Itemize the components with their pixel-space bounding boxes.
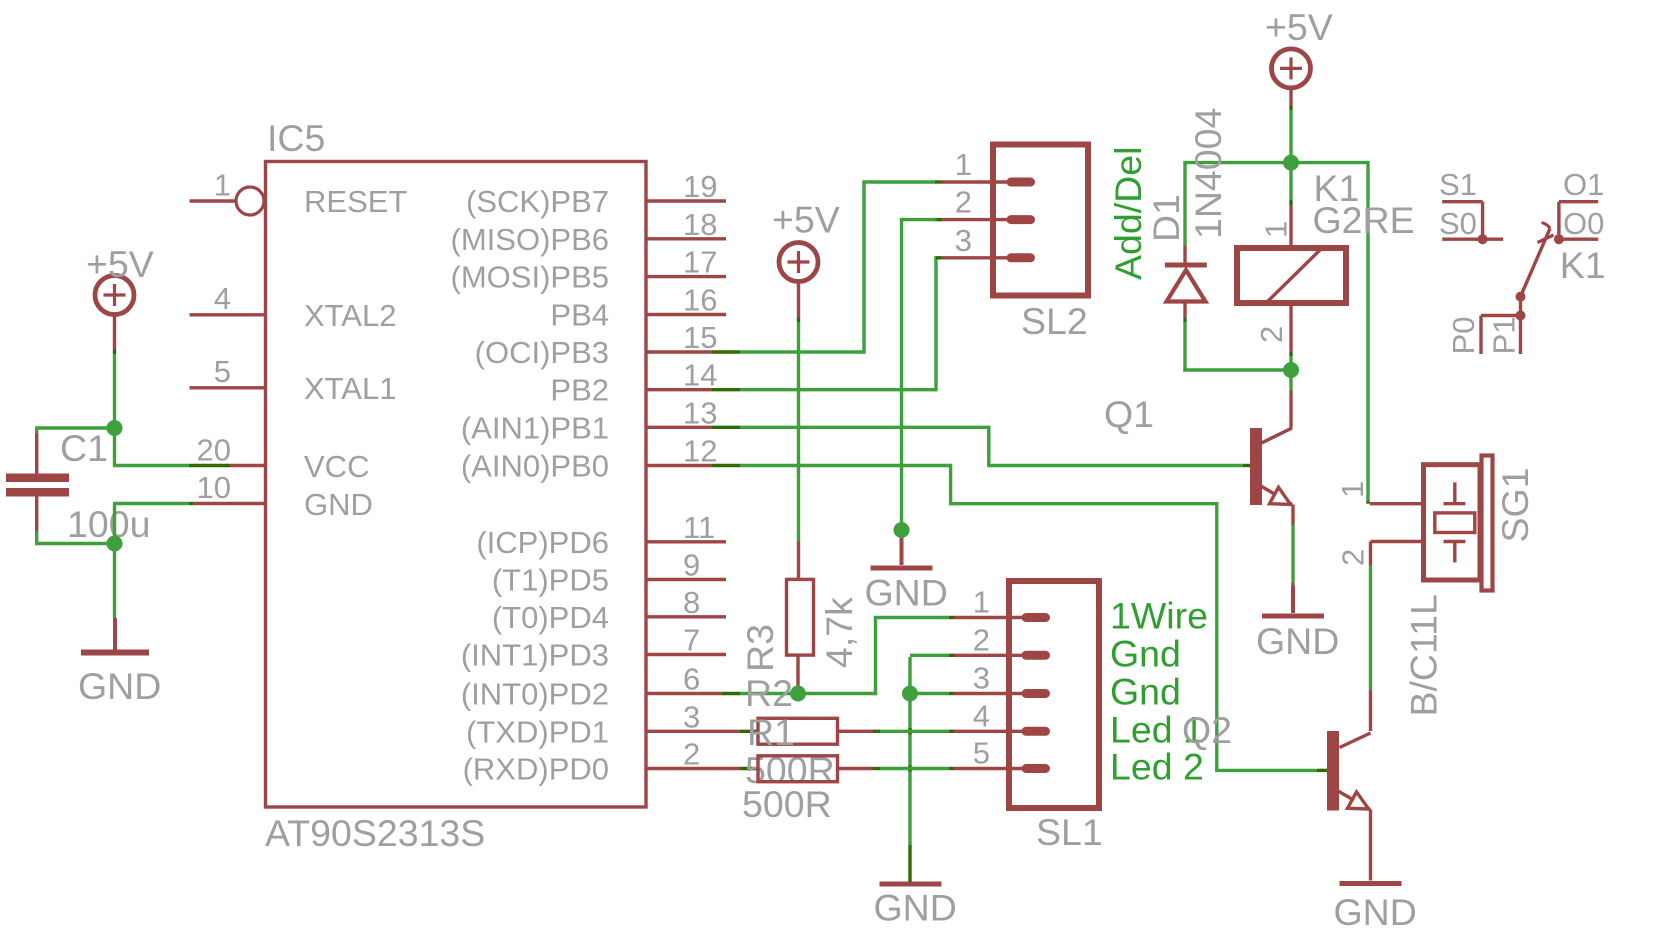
svg-text:2: 2 <box>1336 549 1371 566</box>
Q2 emitter arrow <box>1348 792 1369 809</box>
R3 value label 4,7k <box>818 597 860 668</box>
svg-text:14: 14 <box>683 358 717 393</box>
node E junction dot (+5V rail) <box>1283 155 1299 171</box>
wire junction A to C1 top <box>35 428 115 433</box>
contact P junction dot <box>1516 311 1526 321</box>
IC5 value label AT90S2313S <box>265 812 485 854</box>
D1 value label 1N4004 <box>1187 108 1229 239</box>
svg-text:Q2: Q2 <box>1182 709 1232 751</box>
IC5 name label <box>267 117 325 159</box>
C1 value label 100u <box>67 503 150 545</box>
svg-text:IC5: IC5 <box>267 117 325 159</box>
pin number 2 <box>683 737 700 772</box>
pin 11 (ICP)PD6 stub <box>645 540 726 543</box>
R1 value label 500R <box>745 749 835 791</box>
SG1 inner electrode top <box>1444 482 1466 503</box>
svg-text:SG1: SG1 <box>1494 467 1536 542</box>
svg-text:GND: GND <box>874 887 957 929</box>
SL1 pin number 5 <box>973 736 990 771</box>
wire junction C to SL1 pin1 1Wire <box>798 618 1023 696</box>
svg-text:18: 18 <box>683 207 717 242</box>
pin number 1 <box>214 168 231 203</box>
svg-text:GND: GND <box>1334 891 1417 933</box>
svg-text:R3: R3 <box>739 624 781 672</box>
svg-text:5: 5 <box>973 736 990 771</box>
svg-text:R1: R1 <box>747 711 795 753</box>
transistor Q1 base bar <box>1250 428 1262 505</box>
pin 2 (RXD)PD0 stub <box>645 767 758 770</box>
relay K1 coil body <box>1237 248 1346 303</box>
svg-text:13: 13 <box>683 395 717 430</box>
pin 20 VCC stub <box>189 464 266 467</box>
net label Gnd <box>1110 671 1181 713</box>
pin number 6 <box>683 662 700 697</box>
svg-text:G2RE: G2RE <box>1313 199 1415 241</box>
svg-text:(OCI)PB3: (OCI)PB3 <box>475 335 609 370</box>
svg-text:11: 11 <box>683 510 715 545</box>
net label Led 2 <box>1110 746 1204 788</box>
svg-text:1Wire: 1Wire <box>1110 595 1208 637</box>
wire relay K1 pin 1 <box>1289 163 1292 245</box>
K1 value label G2RE <box>1313 199 1415 241</box>
pin 15 (OCI)PB3 stub <box>645 350 740 353</box>
wire Q2 emitter to ground <box>1369 810 1372 881</box>
capacitor C1 plates <box>6 474 69 497</box>
pin name (MOSI)PB5 <box>451 260 609 295</box>
pin name (AIN0)PB0 <box>461 449 609 484</box>
svg-text:P1: P1 <box>1487 316 1522 354</box>
label O1 <box>1563 167 1604 202</box>
svg-text:VCC: VCC <box>304 449 369 484</box>
wire SL2 pin2 to ground <box>902 218 942 530</box>
pin 10 GND stub <box>189 502 266 505</box>
wire C1 bottom to junction B <box>35 531 115 545</box>
pin name (TXD)PD1 <box>466 714 609 749</box>
pin number 5 <box>214 354 231 389</box>
pin number 15 <box>683 320 717 355</box>
contact S0 wire <box>1442 237 1503 240</box>
R2 value label 500R <box>742 783 832 825</box>
wire +5V P1 to junction A <box>113 315 116 428</box>
pin 1 inversion bubble <box>236 187 264 215</box>
pin number 7 <box>683 623 700 658</box>
Q1 name label <box>1104 393 1154 435</box>
pin name (MISO)PB6 <box>451 222 609 257</box>
pin number 19 <box>683 169 717 204</box>
svg-text:(T0)PD4: (T0)PD4 <box>492 600 609 635</box>
pin name (AIN1)PB1 <box>461 410 609 445</box>
diode D1 triangle <box>1167 270 1206 302</box>
resistor R1 body <box>758 718 838 744</box>
wire +5V P3 down <box>1289 88 1292 163</box>
K1 name label <box>1314 167 1360 209</box>
pin number 13 <box>683 395 717 430</box>
svg-text:1: 1 <box>955 147 972 182</box>
pin name GND <box>304 487 373 522</box>
svg-text:B/C11L: B/C11L <box>1403 594 1445 716</box>
pin 4 XTAL2 wire <box>190 313 266 316</box>
wire R2 right to SL1 pin5 Led 2 <box>838 767 1024 770</box>
node B junction dot <box>107 536 123 552</box>
svg-text:5: 5 <box>214 354 231 389</box>
SL1 pin number 3 <box>973 661 990 696</box>
capacitor C1 top lead <box>35 432 38 474</box>
wire junction E left to D1 <box>1185 161 1293 164</box>
pin 1 RESET wire <box>190 199 237 202</box>
svg-text:2: 2 <box>955 185 972 220</box>
wire pin15 PB3 to SL2 pin1 <box>740 182 942 354</box>
resistor R3 body <box>787 579 814 655</box>
pin name XTAL2 <box>304 298 396 333</box>
svg-text:O0: O0 <box>1563 206 1604 241</box>
svg-text:(INT0)PD2: (INT0)PD2 <box>461 677 609 712</box>
svg-text:2: 2 <box>683 737 700 772</box>
svg-text:19: 19 <box>683 169 717 204</box>
pin name PB4 <box>550 298 609 333</box>
svg-text:+5V: +5V <box>1265 6 1333 48</box>
svg-text:Gnd: Gnd <box>1110 671 1181 713</box>
pin name VCC <box>304 449 369 484</box>
node C junction dot (R3/pin6/1Wire) <box>790 686 806 702</box>
+5V supply symbol P3 (relay) <box>1265 6 1333 88</box>
wire junction F to Q1 collector <box>1289 370 1292 428</box>
svg-text:8: 8 <box>683 585 700 620</box>
pin 7 (INT1)PD3 stub <box>645 653 726 656</box>
svg-text:17: 17 <box>683 245 717 280</box>
svg-text:500R: 500R <box>742 783 832 825</box>
IC IC5 AT90S2313S body <box>266 162 647 808</box>
svg-text:2: 2 <box>973 622 990 657</box>
contact arm pivot dot <box>1516 292 1526 302</box>
relay pin number 1 <box>1259 221 1294 238</box>
SG1 inner electrode bottom <box>1444 542 1466 563</box>
relay K1 coil diagonal <box>1266 248 1322 303</box>
R3 name label <box>739 624 781 672</box>
svg-text:SL1: SL1 <box>1036 811 1103 853</box>
wire D1 to junction F <box>1183 368 1291 371</box>
wire SL1 pin3 Gnd <box>908 692 1023 695</box>
SL2 pin number 3 <box>955 223 972 258</box>
pin name (OCI)PB3 <box>475 335 609 370</box>
contact K1 moving arm <box>1521 223 1554 297</box>
diode D1 cathode bar <box>1165 263 1207 268</box>
wire R3 bottom to junction C <box>796 655 799 693</box>
pin number 20 <box>197 433 231 468</box>
pin name (SCK)PB7 <box>466 184 609 219</box>
Q2 emitter lead <box>1338 791 1370 810</box>
pin name (RXD)PD0 <box>463 752 609 787</box>
pin name (INT1)PD3 <box>461 638 609 673</box>
wire relay K1 pin 2 <box>1289 306 1292 371</box>
svg-text:RESET: RESET <box>304 184 407 219</box>
svg-text:GND: GND <box>1256 620 1339 662</box>
SL2 pin number 2 <box>955 185 972 220</box>
ground symbol (SL2 pin2) <box>865 533 948 614</box>
contact O1 wire <box>1559 202 1598 240</box>
wire pin13 PB1 to Q1 base <box>740 426 1250 466</box>
label O0 <box>1563 206 1604 241</box>
pin 12 (AIN0)PB0 stub <box>645 464 740 467</box>
wire junction D to ground <box>908 694 911 883</box>
node A junction dot <box>107 420 123 436</box>
Q1 collector lead <box>1262 428 1293 443</box>
pin number 12 <box>683 434 717 469</box>
SG1 pin 1 wire <box>1370 502 1424 505</box>
svg-text:9: 9 <box>683 548 700 583</box>
wire R1 right to SL1 pin4 Led 1 <box>838 730 1024 733</box>
ground symbol (Q2 emitter) <box>1334 884 1417 934</box>
pin 13 (AIN1)PB1 stub <box>645 426 740 429</box>
contact S1 wire <box>1442 202 1482 240</box>
SL2 pin number 1 <box>955 147 972 182</box>
SL1 pin number 2 <box>973 622 990 657</box>
svg-text:SL2: SL2 <box>1021 300 1088 342</box>
wire junction E right then down to SG1 pin1 <box>1289 161 1368 504</box>
R1 left lead <box>756 730 759 733</box>
SL2 name label <box>1021 300 1088 342</box>
wire junction A to VCC pin 20 <box>113 428 189 466</box>
pin name (T0)PD4 <box>492 600 609 635</box>
pin number 17 <box>683 245 717 280</box>
svg-text:4: 4 <box>214 281 231 316</box>
svg-text:+5V: +5V <box>86 243 154 285</box>
svg-text:(ICP)PD6: (ICP)PD6 <box>476 525 609 560</box>
pin 18 (MISO)PB6 stub <box>645 237 726 240</box>
Q2 name label <box>1182 709 1232 751</box>
svg-text:S0: S0 <box>1439 206 1477 241</box>
pin 19 (SCK)PB7 stub <box>645 199 726 202</box>
pin number 14 <box>683 358 717 393</box>
pin name (T1)PD5 <box>492 563 609 598</box>
+5V supply symbol P1 (left) <box>86 243 154 315</box>
connector SL1 body and pins <box>1009 581 1099 808</box>
SG1 inner crystal <box>1435 513 1475 533</box>
svg-text:XTAL2: XTAL2 <box>304 298 396 333</box>
label P1 <box>1487 316 1522 354</box>
capacitor C1 bottom lead <box>35 497 38 532</box>
svg-text:S1: S1 <box>1439 167 1477 202</box>
svg-text:C1: C1 <box>60 427 108 469</box>
SG1 pin 2 wire <box>1371 540 1424 543</box>
contact arm link <box>1519 297 1522 316</box>
pin number 9 <box>683 548 700 583</box>
svg-text:(MOSI)PB5: (MOSI)PB5 <box>451 260 609 295</box>
pin 14 PB2 stub <box>645 388 740 391</box>
svg-text:4: 4 <box>973 698 990 733</box>
pin number 16 <box>683 283 717 318</box>
D1 name label <box>1145 194 1187 242</box>
svg-text:(MISO)PB6: (MISO)PB6 <box>451 222 609 257</box>
label S0 <box>1439 206 1477 241</box>
svg-text:(TXD)PD1: (TXD)PD1 <box>466 714 609 749</box>
svg-text:PB2: PB2 <box>550 373 609 408</box>
svg-text:12: 12 <box>683 434 717 469</box>
svg-text:2: 2 <box>1254 326 1289 343</box>
SG1 pin number 2 <box>1336 549 1371 566</box>
pin number 10 <box>197 470 231 505</box>
contact O junction dot <box>1554 234 1564 244</box>
svg-text:PB4: PB4 <box>550 298 609 333</box>
svg-text:7: 7 <box>683 623 700 658</box>
svg-text:10: 10 <box>197 470 231 505</box>
wire pin12 PB0 to Q2 base <box>740 464 1327 771</box>
svg-text:1: 1 <box>1259 221 1294 238</box>
SG1 name label <box>1494 467 1536 542</box>
svg-text:(T1)PD5: (T1)PD5 <box>492 563 609 598</box>
contact P0 wire <box>1481 316 1521 355</box>
svg-text:6: 6 <box>683 662 700 697</box>
svg-text:(SCK)PB7: (SCK)PB7 <box>466 184 609 219</box>
+5V supply symbol P2 (above R3) <box>772 199 840 282</box>
R2 name label <box>745 672 793 714</box>
svg-text:XTAL1: XTAL1 <box>304 371 396 406</box>
SG1 pin number 1 <box>1335 481 1370 498</box>
svg-text:(RXD)PD0: (RXD)PD0 <box>463 752 609 787</box>
pin 17 (MOSI)PB5 stub <box>645 275 726 278</box>
svg-text:Q1: Q1 <box>1104 393 1154 435</box>
pin number 8 <box>683 585 700 620</box>
contact O0 wire <box>1556 237 1598 240</box>
contact group name K1 <box>1560 244 1606 286</box>
pin 9 (T1)PD5 stub <box>645 578 726 581</box>
pin name XTAL1 <box>304 371 396 406</box>
svg-text:1: 1 <box>1335 481 1370 498</box>
buzzer SG1 body <box>1424 465 1481 580</box>
net label Led 1 <box>1110 708 1204 750</box>
pin 5 XTAL1 wire <box>190 386 266 389</box>
net label 1Wire <box>1110 595 1208 637</box>
pin number 3 <box>683 699 700 734</box>
wire junction B to ground <box>113 544 116 619</box>
wire SL1 pin2 Gnd <box>910 655 1023 693</box>
svg-text:(AIN0)PB0: (AIN0)PB0 <box>461 449 609 484</box>
svg-text:(INT1)PD3: (INT1)PD3 <box>461 638 609 673</box>
svg-text:1N4004: 1N4004 <box>1187 108 1229 239</box>
svg-text:R2: R2 <box>745 672 793 714</box>
svg-text:GND: GND <box>865 572 948 614</box>
svg-text:GND: GND <box>304 487 373 522</box>
svg-text:3: 3 <box>973 661 990 696</box>
svg-text:Gnd: Gnd <box>1110 632 1181 674</box>
C1 name label <box>60 427 108 469</box>
svg-text:P0: P0 <box>1446 316 1481 354</box>
wire pin14 PB2 to SL2 pin3 <box>740 258 942 392</box>
pin 16 PB4 stub <box>645 313 726 316</box>
node D junction dot (SL1 Gnd) <box>902 686 918 702</box>
svg-text:1: 1 <box>973 585 990 620</box>
pin number 11 <box>683 510 715 545</box>
wire SG1 pin2 to Q2 collector <box>1369 542 1372 732</box>
label P0 <box>1446 316 1481 354</box>
svg-text:Add/Del: Add/Del <box>1107 147 1149 280</box>
svg-text:4,7k: 4,7k <box>818 597 860 668</box>
wire pin6 PD2 to junction C <box>740 692 791 695</box>
wire +5V P2 to R3 top <box>797 282 800 580</box>
node F junction dot (relay pin2) <box>1283 362 1299 378</box>
pin 8 (T0)PD4 stub <box>645 615 726 618</box>
svg-text:3: 3 <box>683 699 700 734</box>
pin name PB2 <box>550 373 609 408</box>
svg-text:15: 15 <box>683 320 717 355</box>
wire Q1 emitter to ground <box>1291 505 1294 614</box>
pin number 18 <box>683 207 717 242</box>
wire junction B to GND pin 10 <box>113 504 189 544</box>
Q1 emitter arrow <box>1270 487 1291 504</box>
SL1 pin number 1 <box>973 585 990 620</box>
wire D1 anode <box>1183 303 1186 372</box>
svg-text:20: 20 <box>197 433 231 468</box>
Q1 emitter lead <box>1261 486 1292 505</box>
contact P1 wire <box>1519 316 1522 355</box>
svg-text:D1: D1 <box>1145 194 1187 242</box>
svg-text:3: 3 <box>955 223 972 258</box>
svg-text:K1: K1 <box>1560 244 1606 286</box>
svg-text:+5V: +5V <box>772 199 840 241</box>
Q2 value label B/C11L <box>1403 594 1445 716</box>
ground symbol (C1) <box>78 618 161 707</box>
ground symbol (Q1 emitter) <box>1256 586 1339 662</box>
pin 6 (INT0)PD2 stub <box>645 692 740 695</box>
ground symbol (SL1 Gnd) <box>874 884 957 929</box>
net label Gnd <box>1110 632 1181 674</box>
SL1 name label <box>1036 811 1103 853</box>
Q2 collector lead <box>1340 733 1371 748</box>
svg-text:GND: GND <box>78 665 161 707</box>
node SL2-GND junction dot <box>894 522 910 538</box>
relay pin number 2 <box>1254 326 1289 343</box>
svg-text:AT90S2313S: AT90S2313S <box>265 812 485 854</box>
pin name (ICP)PD6 <box>476 525 609 560</box>
pin 3 (TXD)PD1 stub <box>645 730 758 733</box>
contact S junction dot <box>1478 234 1488 244</box>
label S1 <box>1439 167 1477 202</box>
svg-text:(AIN1)PB1: (AIN1)PB1 <box>461 410 609 445</box>
buzzer SG1 flange <box>1482 456 1493 591</box>
pin number 4 <box>214 281 231 316</box>
resistor R2 body <box>758 756 838 782</box>
svg-text:16: 16 <box>683 283 717 318</box>
pin name RESET <box>304 184 407 219</box>
wire D1 cathode <box>1183 161 1186 263</box>
pin name (INT0)PD2 <box>461 677 609 712</box>
svg-text:Led 2: Led 2 <box>1110 746 1204 788</box>
svg-text:O1: O1 <box>1563 167 1604 202</box>
R1 name label <box>747 711 795 753</box>
net label Add/Del <box>1107 147 1149 280</box>
connector SL2 body and pins <box>942 145 1089 296</box>
svg-text:1: 1 <box>214 168 231 203</box>
transistor Q2 base bar <box>1327 731 1339 811</box>
SL1 pin number 4 <box>973 698 990 733</box>
